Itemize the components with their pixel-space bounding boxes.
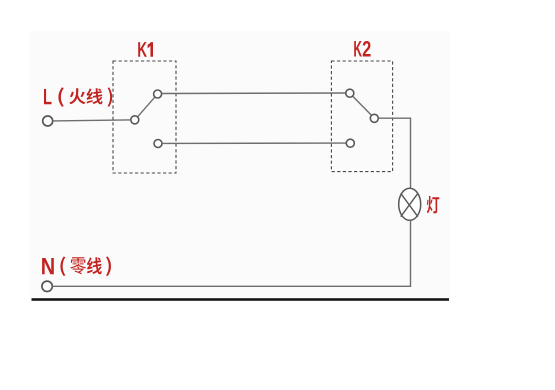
switch K1 common contact [131,116,139,124]
bottom border line [32,298,450,301]
switch K1 contact 1 top [154,90,162,98]
switch K1 box [113,61,176,173]
wire traveler top K1 to K2 [162,92,346,95]
lamp cross stroke 1 [401,193,418,216]
lamp cross stroke 2 [401,193,418,216]
label 灯 [427,196,440,213]
switch K1 lever [138,97,156,117]
wire N neutral line [53,285,412,287]
scanned schematic background [29,31,450,299]
terminal N [42,281,52,291]
wire traveler bottom K1 to K2 [162,142,346,144]
switch K1 contact 2 bottom [154,140,162,148]
switch K2 common contact [370,114,378,122]
lamp circle [399,188,421,220]
switch K2 lever [353,96,372,115]
switch K2 contact 2 bottom-left [346,139,354,147]
terminal L [43,116,53,126]
wire L to K1 common [53,120,131,121]
switch K2 contact 1 top-left [346,89,354,97]
wire lamp to N line [410,220,412,286]
label K1 [138,42,153,57]
label N (零线) [42,257,111,277]
label L (火线) [44,87,112,106]
wire K2 common to lamp corner [378,118,410,188]
switch K2 box [331,61,392,172]
label K2 [354,41,370,57]
